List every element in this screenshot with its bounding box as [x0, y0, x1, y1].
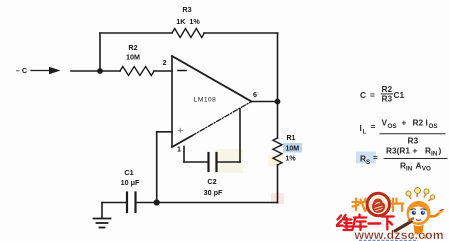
svg-text:– C: – C	[16, 66, 27, 75]
svg-text:R3(R1: R3(R1	[386, 145, 410, 155]
svg-text:www.dzsc.com: www.dzsc.com	[354, 228, 444, 241]
svg-text:R3: R3	[182, 5, 191, 14]
svg-text:2: 2	[163, 58, 167, 67]
svg-text:1: 1	[177, 145, 181, 154]
svg-text:10 μF: 10 μF	[121, 178, 140, 187]
svg-text:1%: 1%	[286, 156, 297, 163]
svg-text:I: I	[360, 123, 362, 133]
svg-text:OS: OS	[388, 123, 397, 130]
svg-text:I: I	[426, 117, 428, 127]
svg-text:R2: R2	[413, 117, 424, 127]
svg-text:=: =	[370, 90, 375, 100]
svg-text:30 pF: 30 pF	[204, 188, 223, 197]
svg-text:1K 1%: 1K 1%	[176, 17, 200, 26]
svg-text:IN: IN	[431, 151, 438, 158]
svg-text:6: 6	[253, 90, 257, 99]
svg-text:C: C	[360, 90, 366, 100]
svg-text:+: +	[413, 145, 418, 155]
svg-text:R3: R3	[382, 94, 393, 104]
svg-text:+: +	[402, 117, 407, 127]
svg-text:VO: VO	[422, 166, 431, 173]
svg-text:R2: R2	[128, 43, 137, 52]
svg-text:10M: 10M	[126, 53, 140, 62]
svg-text:C1: C1	[124, 168, 133, 177]
svg-text:=: =	[373, 153, 378, 163]
svg-text:C1: C1	[394, 90, 405, 100]
svg-text:): )	[439, 145, 442, 155]
svg-text:10M: 10M	[286, 146, 300, 153]
svg-text:OS: OS	[429, 123, 438, 130]
svg-text:=: =	[371, 122, 376, 132]
svg-text:LM108: LM108	[194, 97, 217, 104]
svg-text:R2: R2	[382, 84, 393, 94]
svg-text:L: L	[363, 128, 367, 135]
svg-text:R3: R3	[408, 136, 419, 146]
svg-text:A: A	[416, 160, 422, 170]
svg-text:R1: R1	[287, 135, 296, 142]
svg-text:S: S	[366, 159, 370, 166]
svg-text:IN: IN	[406, 166, 413, 173]
svg-text:C2: C2	[207, 177, 216, 186]
